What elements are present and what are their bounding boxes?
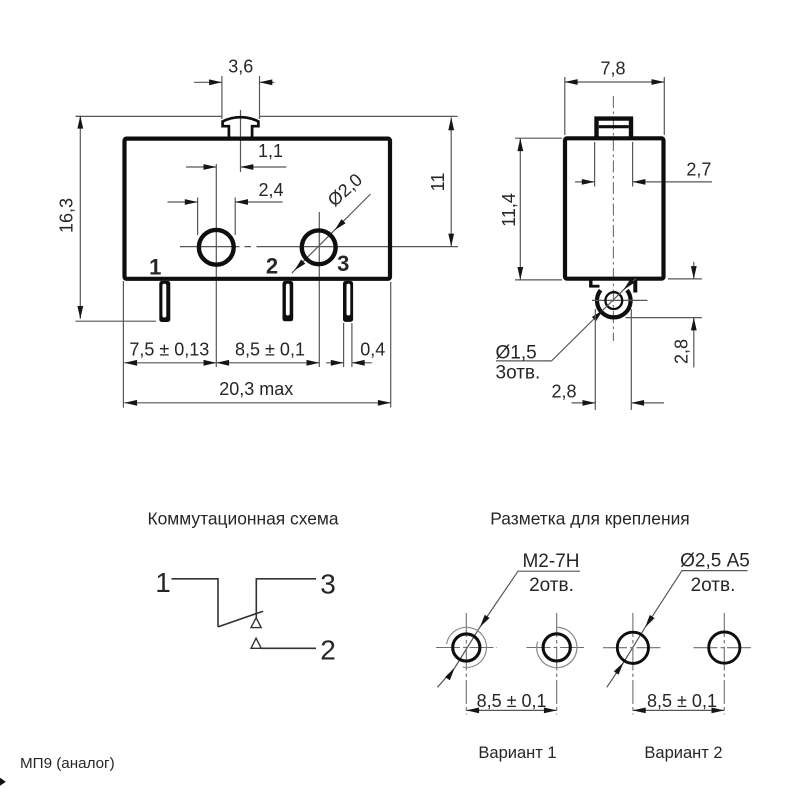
- variant 1 hole B: [537, 627, 577, 667]
- ear hole: [605, 292, 622, 309]
- ear hole center line horizontal: [592, 299, 648, 301]
- svg-text:3: 3: [320, 569, 336, 600]
- dimension 2,8 bottom: [551, 309, 664, 410]
- side view button: [597, 119, 632, 138]
- schematic terminal 1: [155, 567, 171, 598]
- svg-text:Разметка для крепления: Разметка для крепления: [490, 509, 689, 529]
- title: Разметка для крепления: [490, 509, 689, 529]
- leader Ø2,5: [607, 571, 748, 688]
- svg-text:20,3 max: 20,3 max: [219, 379, 293, 399]
- title: Коммутационная схема: [147, 509, 338, 529]
- pin 2: [283, 281, 294, 321]
- page corner mark: [0, 778, 6, 786]
- wire from terminal 3: [256, 579, 316, 618]
- variant 2 hole A center lines: [603, 613, 663, 715]
- label М2-7Н 2отв.: [522, 551, 579, 596]
- variant 2 hole B: [709, 632, 740, 663]
- svg-text:Вариант 2: Вариант 2: [644, 744, 722, 762]
- dimension 0,4: [326, 323, 385, 367]
- leader Ø2,0: [292, 169, 371, 273]
- svg-text:8,5 ± 0,1: 8,5 ± 0,1: [235, 340, 305, 360]
- svg-text:2: 2: [266, 254, 278, 279]
- contact triangle lower: [251, 638, 261, 648]
- hole 3: [302, 230, 336, 264]
- dimension 2,7: [575, 142, 712, 187]
- variant 1 hole A: [447, 627, 487, 667]
- svg-text:2,7: 2,7: [686, 160, 711, 180]
- label МП9 (аналог): [20, 755, 115, 772]
- dimension 2,8 right: [626, 262, 702, 368]
- mounting ear: [589, 279, 635, 317]
- svg-text:2,8: 2,8: [551, 382, 576, 402]
- variant 2 hole B center lines: [694, 613, 754, 715]
- dimension 3,6: [194, 57, 275, 120]
- svg-text:1: 1: [149, 255, 161, 280]
- svg-text:1,1: 1,1: [258, 141, 283, 161]
- label Вариант 2: [644, 744, 722, 762]
- svg-text:8,5 ± 0,1: 8,5 ± 0,1: [477, 691, 547, 711]
- pin 3: [343, 281, 353, 322]
- pin 1: [159, 281, 170, 322]
- schematic terminal 2: [320, 635, 336, 666]
- svg-text:Коммутационная схема: Коммутационная схема: [147, 509, 338, 529]
- pin label 3: [337, 251, 349, 276]
- dimension 20,3 max: [124, 282, 390, 408]
- dimension 7,8: [565, 59, 665, 136]
- svg-text:1: 1: [155, 567, 171, 598]
- dimension 7,5 ± 0,13: [123, 281, 216, 408]
- switch lever wire: [218, 611, 263, 627]
- wire from terminal 1: [172, 579, 219, 627]
- dimension 11: [428, 117, 454, 246]
- front view body: [125, 139, 391, 279]
- dimension 11,4: [499, 138, 562, 280]
- svg-text:М2-7Н: М2-7Н: [522, 551, 579, 572]
- hole 2: [199, 230, 234, 265]
- svg-text:3,6: 3,6: [228, 57, 253, 77]
- dimension 8,5 ± 0,1 variant 2: [633, 691, 724, 713]
- svg-text:Ø1,5: Ø1,5: [496, 343, 537, 364]
- svg-text:7,8: 7,8: [600, 59, 625, 79]
- side view body: [565, 138, 664, 278]
- front view button: [223, 117, 259, 139]
- wire: body top extension line: [76, 115, 458, 117]
- svg-text:0,4: 0,4: [360, 340, 385, 360]
- svg-text:11,4: 11,4: [499, 193, 519, 227]
- svg-text:8,5 ± 0,1: 8,5 ± 0,1: [647, 691, 717, 711]
- svg-text:2отв.: 2отв.: [691, 575, 736, 596]
- svg-text:3отв.: 3отв.: [496, 363, 541, 384]
- node: hole 2 vertical center line: [215, 164, 217, 367]
- dimension 8,5 ± 0,1 variant 1: [466, 691, 556, 713]
- variant 1 hole B center lines: [527, 613, 586, 715]
- node: hole 3 vertical center line: [318, 212, 320, 367]
- dimension 1,1: [186, 141, 286, 170]
- svg-text:3: 3: [337, 251, 349, 276]
- svg-text:11: 11: [428, 173, 448, 192]
- dimension 8,5 ± 0,1: [216, 340, 319, 366]
- svg-text:Ø2,5 А5: Ø2,5 А5: [680, 551, 750, 572]
- leader М2-7Н: [437, 571, 580, 687]
- svg-text:МП9 (аналог): МП9 (аналог): [20, 755, 115, 772]
- variant 2 hole A: [617, 632, 648, 663]
- pin label 2: [266, 254, 278, 279]
- pin label 1: [149, 255, 161, 280]
- label Вариант 1: [478, 744, 556, 762]
- svg-text:2отв.: 2отв.: [529, 575, 574, 596]
- leader Ø1,5 3отв.: [496, 279, 637, 384]
- svg-text:2,4: 2,4: [258, 180, 283, 200]
- svg-text:2,8: 2,8: [672, 339, 692, 364]
- dimension 2,4: [168, 180, 284, 235]
- node: button vertical center line: [240, 110, 242, 172]
- schematic terminal 3: [320, 569, 336, 600]
- svg-text:2: 2: [320, 635, 336, 666]
- svg-text:16,3: 16,3: [57, 198, 77, 233]
- svg-text:7,5 ± 0,13: 7,5 ± 0,13: [129, 340, 209, 360]
- dimension 16,3: [57, 116, 157, 321]
- wire: front view hole center line: [180, 246, 458, 248]
- wire from terminal 2: [261, 647, 316, 649]
- contact triangle upper: [251, 618, 261, 628]
- svg-text:Вариант 1: Вариант 1: [478, 744, 556, 762]
- label Ø2,5 А5 2отв.: [680, 551, 750, 597]
- variant 1 hole A center lines: [436, 613, 497, 715]
- side view center line: [612, 96, 614, 341]
